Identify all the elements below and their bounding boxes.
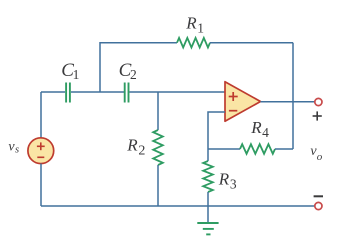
plus sign output — [313, 111, 322, 120]
voltage source vs — [28, 138, 54, 164]
minus sign output — [314, 195, 323, 197]
svg-text:R: R — [218, 170, 230, 189]
svg-text:1: 1 — [197, 21, 204, 36]
svg-text:R: R — [250, 118, 262, 137]
svg-text:o: o — [317, 151, 323, 163]
svg-text:2: 2 — [130, 67, 137, 82]
svg-text:R: R — [185, 14, 197, 33]
resistor R1 — [177, 38, 210, 48]
terminal - output — [315, 202, 322, 209]
wire main horizontal left segment (source top to C1) — [41, 91, 65, 93]
wire op-amp inverting input lead — [208, 112, 225, 149]
wire op-amp output to terminal — [261, 101, 315, 103]
resistor R3 — [203, 161, 213, 192]
svg-text:4: 4 — [262, 125, 269, 140]
capacitor C2 — [125, 83, 129, 103]
wire junction vertical between C1 and C2 up to R1 branch — [99, 42, 101, 92]
wire between C1 and C2 — [71, 91, 124, 93]
terminal + output — [315, 98, 322, 105]
wire R2 top lead — [157, 92, 159, 130]
wire bottom rail — [41, 205, 315, 207]
wire feedback node horizontal to R4 — [208, 148, 240, 150]
capacitor C1 — [66, 83, 70, 103]
wire R3 top lead — [207, 149, 209, 161]
wire R3 bottom lead — [207, 192, 209, 206]
wire from vs down to bottom rail — [40, 164, 42, 206]
resistor R2 — [153, 130, 163, 165]
svg-text:1: 1 — [73, 67, 80, 82]
svg-text:s: s — [15, 145, 19, 156]
ground — [207, 206, 209, 223]
wire right vertical from R1 down through output node to R4 — [292, 43, 294, 149]
resistor R4 — [240, 144, 275, 154]
svg-text:2: 2 — [138, 144, 145, 159]
wire R4 right lead to output vertical — [275, 148, 293, 150]
wire from C2 to op-amp noninverting input — [130, 91, 226, 93]
wire top horizontal right of R1 — [210, 42, 293, 44]
op-amp U1 — [225, 82, 261, 122]
svg-text:R: R — [126, 136, 138, 155]
wire R2 bottom lead — [157, 165, 159, 206]
wire from source top down to vs — [40, 92, 42, 138]
wire top horizontal left of R1 — [100, 42, 177, 44]
svg-text:3: 3 — [230, 177, 237, 192]
